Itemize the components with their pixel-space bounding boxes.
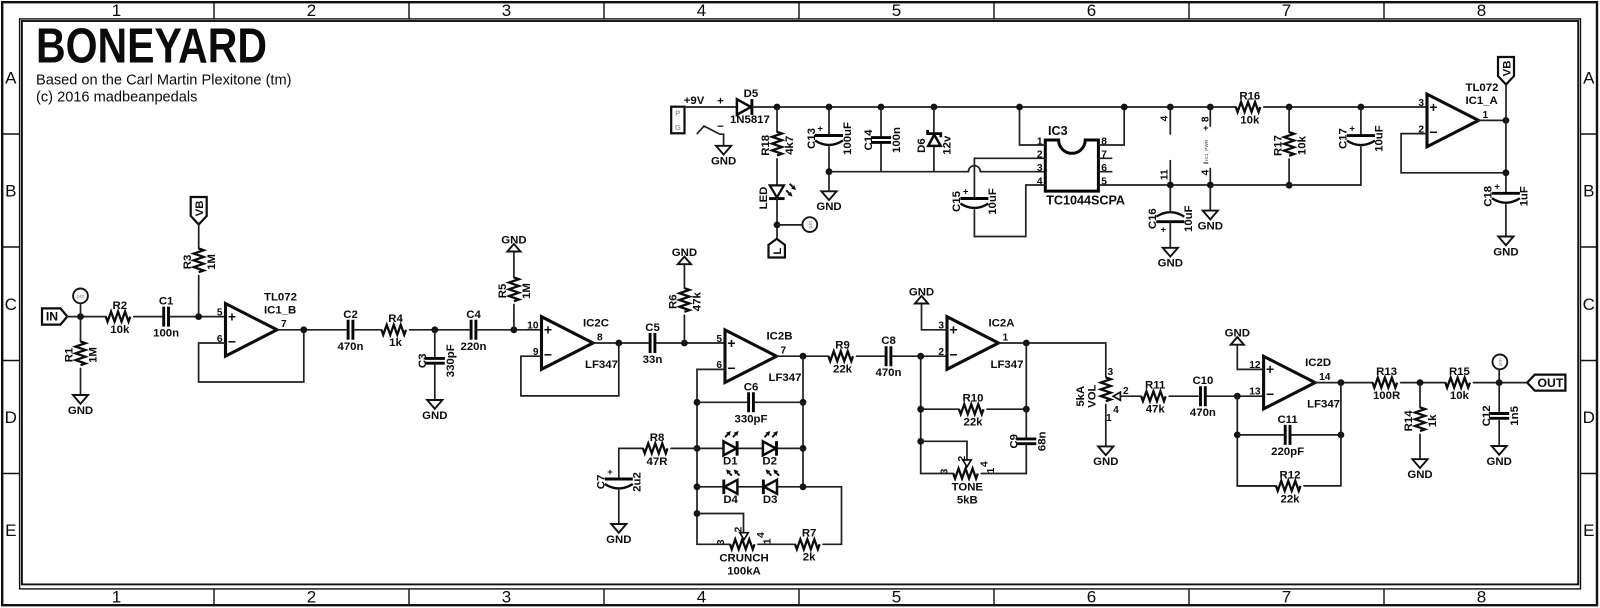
junction xyxy=(800,353,807,360)
wire R14 branch xyxy=(1419,383,1421,408)
svg-text:D: D xyxy=(1583,408,1595,427)
capacitor C6 xyxy=(735,381,768,425)
net stub pad 11 xyxy=(1169,161,1171,185)
ground xyxy=(1158,248,1183,270)
svg-text:8: 8 xyxy=(1477,588,1486,607)
svg-text:R5: R5 xyxy=(497,283,509,298)
wire xyxy=(776,159,778,185)
svg-text:IC2D: IC2D xyxy=(1305,357,1331,369)
wire xyxy=(1288,107,1290,132)
svg-text:GND: GND xyxy=(1493,246,1518,258)
resistor R15 xyxy=(1445,366,1470,402)
junction xyxy=(77,313,84,320)
wire GND pin3 IC2A xyxy=(922,304,948,330)
svg-text:100n: 100n xyxy=(891,127,903,153)
svg-text:R1: R1 xyxy=(64,347,76,362)
junction xyxy=(1234,432,1241,439)
svg-text:D4: D4 xyxy=(723,494,738,506)
svg-text:G: G xyxy=(675,123,681,132)
ground xyxy=(606,524,631,546)
wire xyxy=(355,329,382,331)
svg-text:4: 4 xyxy=(1200,169,1211,175)
capacitor C16 xyxy=(1147,205,1195,235)
svg-text:(c) 2016 madbeanpedals: (c) 2016 madbeanpedals xyxy=(36,90,197,106)
svg-text:GND: GND xyxy=(1093,456,1118,468)
svg-text:LF347: LF347 xyxy=(1307,398,1340,410)
capacitor C15 xyxy=(951,187,999,215)
wire output IC2B xyxy=(777,355,829,357)
svg-text:3: 3 xyxy=(940,468,951,474)
svg-text:1: 1 xyxy=(112,588,121,607)
svg-text:4: 4 xyxy=(979,461,990,467)
svg-text:GND: GND xyxy=(1198,220,1223,232)
connector OUT xyxy=(1527,375,1565,391)
svg-text:+: + xyxy=(1494,181,1500,192)
resistor R1 xyxy=(64,342,100,366)
svg-text:R3: R3 xyxy=(182,255,194,270)
svg-text:1uF: 1uF xyxy=(1519,186,1531,206)
svg-text:330pF: 330pF xyxy=(445,344,457,377)
svg-text:5: 5 xyxy=(716,334,722,345)
junction xyxy=(1286,182,1293,189)
svg-text:+: + xyxy=(963,187,969,198)
svg-text:47k: 47k xyxy=(692,292,704,312)
wire xyxy=(1473,382,1527,384)
svg-text:C9: C9 xyxy=(1008,434,1020,449)
svg-text:4k7: 4k7 xyxy=(784,136,796,155)
svg-text:C11: C11 xyxy=(1277,414,1298,426)
wire xyxy=(410,329,470,331)
svg-text:C8: C8 xyxy=(881,335,896,347)
svg-text:pin: pin xyxy=(808,221,814,229)
wire xyxy=(434,330,436,358)
svg-text:C15: C15 xyxy=(951,190,963,212)
junction xyxy=(694,483,701,490)
IC U3 TC1044SCPA xyxy=(1037,124,1125,207)
junction xyxy=(694,445,701,452)
wire xyxy=(1169,185,1171,213)
svg-text:GND: GND xyxy=(68,405,93,417)
wire xyxy=(1498,421,1500,446)
net flag VB xyxy=(1498,57,1514,85)
svg-text:3: 3 xyxy=(1107,367,1113,378)
pad pin xyxy=(802,217,817,232)
junction xyxy=(1234,393,1241,400)
svg-text:100n: 100n xyxy=(153,328,179,340)
LED D3 xyxy=(763,469,779,505)
svg-text:8: 8 xyxy=(597,332,603,343)
svg-text:+9V: +9V xyxy=(684,95,705,107)
svg-text:1: 1 xyxy=(1003,332,1009,343)
svg-text:2: 2 xyxy=(957,456,968,462)
wire xyxy=(1505,173,1507,194)
op-amp IC1_B xyxy=(217,292,297,357)
capacitor C12 xyxy=(1481,405,1521,426)
svg-text:R9: R9 xyxy=(835,340,850,352)
wire tone left column xyxy=(921,356,954,473)
svg-text:GND: GND xyxy=(711,156,736,168)
op-amp IC2A xyxy=(938,317,1023,371)
wire xyxy=(933,107,935,133)
wire output IC2A xyxy=(999,343,1106,377)
svg-text:22k: 22k xyxy=(963,417,983,429)
wire xyxy=(434,364,436,400)
power jack J1 xyxy=(671,107,684,134)
svg-text:100kA: 100kA xyxy=(727,565,761,577)
svg-text:D1: D1 xyxy=(723,455,738,467)
LED D1 xyxy=(723,431,739,467)
svg-text:D6: D6 xyxy=(916,138,928,153)
svg-text:6: 6 xyxy=(1087,588,1096,607)
svg-text:TL072: TL072 xyxy=(264,292,297,304)
svg-text:4: 4 xyxy=(1113,405,1119,416)
svg-text:10: 10 xyxy=(527,321,539,332)
resistor R13 xyxy=(1373,366,1401,402)
svg-text:6: 6 xyxy=(1087,1,1096,20)
svg-text:C: C xyxy=(1583,295,1595,314)
wire xyxy=(880,143,882,171)
svg-text:−: − xyxy=(228,333,236,349)
wire xyxy=(618,491,620,525)
svg-text:3: 3 xyxy=(716,539,727,545)
wire xyxy=(752,106,1236,108)
net flag L xyxy=(769,239,785,258)
junction xyxy=(1417,379,1424,386)
wire xyxy=(933,147,935,172)
svg-text:GND: GND xyxy=(1407,469,1432,481)
junction xyxy=(800,399,807,406)
svg-text:+: + xyxy=(607,467,613,478)
wire pin8 xyxy=(1098,107,1124,145)
svg-text:2k: 2k xyxy=(803,552,816,564)
svg-text:C3: C3 xyxy=(417,354,429,369)
svg-text:E: E xyxy=(1583,521,1594,540)
svg-text:10uF: 10uF xyxy=(1374,125,1386,152)
svg-text:2: 2 xyxy=(938,347,944,358)
wire xyxy=(758,543,795,545)
junction xyxy=(195,313,202,320)
svg-text:3: 3 xyxy=(1418,98,1424,109)
junction xyxy=(931,104,938,111)
svg-text:C16: C16 xyxy=(1147,208,1159,229)
LED D4 xyxy=(723,469,739,505)
wire xyxy=(1169,395,1198,397)
capacitor C13 xyxy=(806,122,854,155)
svg-text:470n: 470n xyxy=(876,367,902,379)
svg-text:IC1_A: IC1_A xyxy=(1466,95,1498,107)
svg-text:+: + xyxy=(1266,361,1274,377)
svg-text:GND: GND xyxy=(1158,258,1183,270)
svg-text:VB: VB xyxy=(194,201,206,217)
junction xyxy=(694,510,701,517)
svg-text:D5: D5 xyxy=(744,88,759,100)
svg-text:3: 3 xyxy=(1037,163,1043,174)
ground xyxy=(1493,237,1518,259)
svg-text:IC2A: IC2A xyxy=(989,318,1015,330)
connector IN xyxy=(42,308,67,324)
op-amp IC2D xyxy=(1249,356,1340,410)
capacitor C9 xyxy=(1008,431,1048,451)
svg-text:+: + xyxy=(817,124,823,135)
resistor R11 xyxy=(1141,380,1166,416)
wire feedback IC2C xyxy=(521,343,619,396)
wire xyxy=(1498,369,1500,382)
svg-text:+: + xyxy=(1203,123,1209,134)
svg-text:pin: pin xyxy=(1498,358,1504,366)
wire pin4 loop xyxy=(974,185,1045,237)
wire xyxy=(80,369,82,396)
junction xyxy=(694,399,701,406)
svg-text:2: 2 xyxy=(307,1,316,20)
svg-text:−: − xyxy=(949,347,957,363)
svg-text:+: + xyxy=(717,96,724,108)
svg-text:1M: 1M xyxy=(521,283,533,299)
ground xyxy=(909,287,934,304)
svg-text:7: 7 xyxy=(781,346,787,357)
junction xyxy=(1358,104,1365,111)
svg-text:1n5: 1n5 xyxy=(1509,405,1521,425)
svg-text:R10: R10 xyxy=(963,393,984,405)
capacitor C4 xyxy=(461,309,487,353)
svg-text:1k: 1k xyxy=(389,337,402,349)
wire pin5 row xyxy=(1098,184,1210,186)
wire R12 row xyxy=(1237,485,1276,487)
svg-text:LF347: LF347 xyxy=(769,372,802,384)
potentiometer CRUNCH xyxy=(716,526,773,577)
svg-text:47R: 47R xyxy=(647,456,668,468)
svg-text:R15: R15 xyxy=(1449,366,1471,378)
svg-text:4: 4 xyxy=(697,588,706,607)
svg-text:22k: 22k xyxy=(833,364,853,376)
ground xyxy=(422,400,447,422)
wire xyxy=(1360,147,1362,185)
wire xyxy=(80,303,82,316)
net stub pad 8 IC1_PWR xyxy=(1209,107,1211,126)
svg-text:LED: LED xyxy=(758,187,770,210)
wire feedback IC1_B xyxy=(199,330,304,382)
LED D-LED xyxy=(758,184,796,210)
wire VOL to GND xyxy=(1105,405,1107,447)
svg-text:GND: GND xyxy=(1225,328,1250,340)
svg-text:LF347: LF347 xyxy=(991,359,1024,371)
junction xyxy=(774,104,781,111)
net stub pad 4 xyxy=(1209,169,1211,186)
pad pin xyxy=(73,289,88,304)
junction xyxy=(774,222,781,229)
svg-text:1: 1 xyxy=(1483,110,1489,121)
svg-text:VOL: VOL xyxy=(1087,384,1099,407)
junction xyxy=(1121,104,1128,111)
junction xyxy=(511,326,518,333)
svg-text:+: + xyxy=(228,308,236,324)
svg-text:L: L xyxy=(772,248,784,255)
wire xyxy=(1401,382,1446,384)
svg-text:C18: C18 xyxy=(1483,186,1495,207)
net stub pad 4 xyxy=(1169,107,1171,134)
ground xyxy=(711,146,736,168)
title BONEYARD xyxy=(36,20,292,106)
ground xyxy=(1225,328,1250,345)
capacitor C8 xyxy=(876,335,902,379)
potentiometer TONE xyxy=(940,456,997,507)
wire wiper VOL row xyxy=(1120,395,1141,397)
svg-text:−: − xyxy=(717,121,724,133)
svg-text:+: + xyxy=(1349,124,1355,135)
wire xyxy=(1360,107,1362,136)
svg-text:IN: IN xyxy=(46,310,58,324)
wire xyxy=(1505,85,1507,121)
svg-text:C7: C7 xyxy=(596,475,608,490)
capacitor C5 xyxy=(643,322,663,366)
svg-text:−: − xyxy=(1203,158,1209,169)
svg-text:−: − xyxy=(1266,386,1274,402)
svg-text:5: 5 xyxy=(217,307,223,318)
svg-text:IC3: IC3 xyxy=(1048,124,1068,138)
svg-text:10k: 10k xyxy=(1240,114,1260,126)
svg-text:GND: GND xyxy=(606,534,631,546)
zener diode D6 xyxy=(916,130,954,155)
svg-text:R8: R8 xyxy=(650,432,665,444)
svg-text:TONE: TONE xyxy=(952,482,984,494)
svg-text:4: 4 xyxy=(756,532,767,538)
resistor R8 xyxy=(643,432,668,468)
svg-text:+: + xyxy=(1429,99,1437,115)
svg-text:C13: C13 xyxy=(806,128,818,149)
svg-text:R16: R16 xyxy=(1239,90,1260,102)
svg-text:10k: 10k xyxy=(110,324,130,336)
diode D5 xyxy=(730,88,770,126)
capacitor C17 xyxy=(1338,124,1386,152)
svg-text:Based on the Carl Martin Plexi: Based on the Carl Martin Plexitone (tm) xyxy=(36,73,292,89)
svg-text:C2: C2 xyxy=(343,309,358,321)
capacitor C3 xyxy=(417,344,457,377)
wire pin1 xyxy=(1020,107,1046,145)
wire wiper TONE xyxy=(921,441,967,460)
svg-text:68n: 68n xyxy=(1036,431,1048,451)
wire xyxy=(134,316,163,318)
svg-text:VB: VB xyxy=(1501,61,1513,77)
wire xyxy=(776,199,778,239)
wire feedback IC1_A xyxy=(1401,120,1506,172)
svg-text:8: 8 xyxy=(1200,116,1211,122)
junction xyxy=(1167,182,1174,189)
ground xyxy=(1407,459,1432,481)
wire xyxy=(657,342,725,344)
svg-text:C17: C17 xyxy=(1338,128,1350,149)
pad pin xyxy=(1493,355,1508,370)
op-amp IC2B xyxy=(716,330,801,384)
resistor R9 xyxy=(829,340,854,376)
capacitor C7 xyxy=(596,467,644,492)
svg-text:C1: C1 xyxy=(159,296,174,308)
svg-text:R2: R2 xyxy=(113,300,128,312)
wire xyxy=(513,252,515,278)
svg-text:GND: GND xyxy=(672,247,697,259)
svg-text:1: 1 xyxy=(763,538,774,544)
svg-text:10uF: 10uF xyxy=(1183,205,1195,232)
svg-text:−: − xyxy=(1429,124,1437,140)
wire into IC2A xyxy=(857,355,948,357)
wire C11 row xyxy=(1237,434,1341,436)
wire xyxy=(1207,395,1264,397)
wire xyxy=(1288,159,1290,185)
wire C7 xyxy=(618,448,620,479)
wire xyxy=(478,329,542,331)
resistor R17 xyxy=(1272,132,1308,156)
junction xyxy=(826,168,833,175)
svg-text:13: 13 xyxy=(1249,387,1261,398)
svg-text:33n: 33n xyxy=(643,354,663,366)
svg-text:TL072: TL072 xyxy=(1466,82,1499,94)
svg-text:GND: GND xyxy=(501,235,526,247)
svg-text:D3: D3 xyxy=(763,494,778,506)
svg-text:1M: 1M xyxy=(88,347,100,363)
resistor R7 xyxy=(795,528,820,564)
wire D row 1 xyxy=(697,447,803,449)
wire xyxy=(1209,185,1211,211)
resistor R12 xyxy=(1276,469,1301,505)
wire xyxy=(880,107,882,137)
junction xyxy=(917,438,924,445)
svg-text:GND: GND xyxy=(422,410,447,422)
resistor R3 xyxy=(182,249,218,273)
svg-text:100R: 100R xyxy=(1373,390,1400,402)
svg-text:7: 7 xyxy=(1282,588,1291,607)
junction xyxy=(1207,104,1214,111)
resistor R18 xyxy=(760,132,796,156)
wire xyxy=(829,166,1045,172)
svg-text:−: − xyxy=(544,347,552,363)
svg-text:4: 4 xyxy=(1160,115,1171,121)
svg-text:R17: R17 xyxy=(1272,135,1284,156)
svg-text:10k: 10k xyxy=(1296,135,1308,155)
junction xyxy=(1016,104,1023,111)
LED D2 xyxy=(762,431,778,467)
wire GND pin12 IC2D xyxy=(1237,345,1263,370)
junction xyxy=(1496,379,1503,386)
resistor R2 xyxy=(106,300,131,336)
svg-text:+: + xyxy=(949,322,957,338)
svg-text:1N5817: 1N5817 xyxy=(730,114,770,126)
resistor R10 xyxy=(959,393,984,429)
wire pin6 stub xyxy=(1098,171,1111,173)
svg-text:GND: GND xyxy=(1487,456,1512,468)
capacitor C1 xyxy=(153,296,179,340)
ground xyxy=(816,191,841,213)
wire feedback left column xyxy=(1237,396,1276,486)
svg-text:IC2C: IC2C xyxy=(583,318,609,330)
svg-text:CRUNCH: CRUNCH xyxy=(719,552,768,564)
wire D row 2 xyxy=(697,487,842,545)
ground xyxy=(501,235,526,252)
wire xyxy=(776,107,778,132)
junction xyxy=(1023,340,1030,347)
svg-text:E: E xyxy=(5,521,16,540)
svg-text:+: + xyxy=(1161,225,1167,236)
svg-text:R14: R14 xyxy=(1403,410,1415,432)
svg-text:1: 1 xyxy=(1106,413,1112,424)
svg-text:5: 5 xyxy=(892,588,901,607)
ground xyxy=(68,395,93,417)
svg-text:5kA: 5kA xyxy=(1075,386,1087,407)
junction xyxy=(800,445,807,452)
wire xyxy=(685,106,737,108)
junction xyxy=(878,104,885,111)
junction xyxy=(1286,104,1293,111)
svg-text:IC1_B: IC1_B xyxy=(264,305,296,317)
svg-text:8: 8 xyxy=(1477,1,1486,20)
svg-text:3: 3 xyxy=(502,1,511,20)
